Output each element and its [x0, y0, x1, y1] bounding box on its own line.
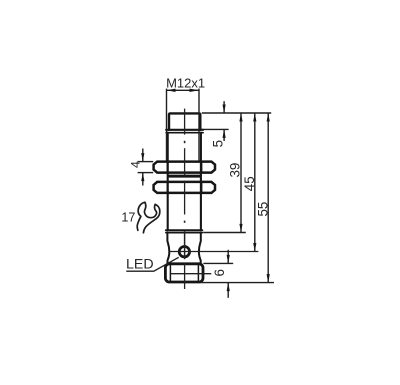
- svg-text:M12x1: M12x1: [166, 76, 205, 91]
- svg-text:6: 6: [212, 269, 227, 276]
- svg-text:39: 39: [228, 163, 243, 178]
- svg-text:45: 45: [242, 176, 257, 191]
- svg-text:4: 4: [129, 161, 143, 168]
- svg-text:55: 55: [256, 202, 271, 217]
- svg-text:5: 5: [210, 140, 225, 147]
- svg-text:LED: LED: [126, 257, 154, 273]
- svg-text:17: 17: [121, 211, 135, 225]
